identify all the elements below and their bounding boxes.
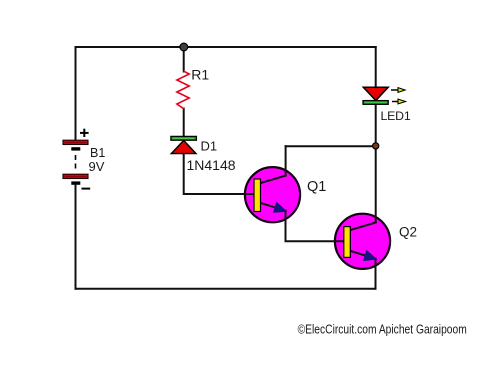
svg-text:Q2: Q2 [399, 224, 417, 239]
svg-text:1N4148: 1N4148 [187, 157, 236, 173]
svg-text:R1: R1 [191, 67, 209, 83]
svg-text:©ElecCircuit.com Apichet Garai: ©ElecCircuit.com Apichet Garaipoom [298, 323, 467, 337]
svg-text:Q1: Q1 [307, 179, 326, 195]
svg-text:9V: 9V [89, 159, 105, 174]
svg-text:B1: B1 [90, 146, 105, 160]
svg-text:D1: D1 [201, 139, 218, 154]
svg-text:LED1: LED1 [381, 109, 411, 123]
